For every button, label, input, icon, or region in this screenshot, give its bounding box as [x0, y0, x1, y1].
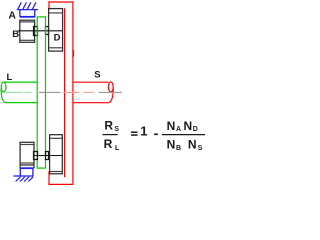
svg-text:R: R — [104, 137, 113, 151]
bottom left vertical below gear S — [48, 171, 50, 184]
bottom edge — [48, 183, 73, 185]
svg-text:A: A — [176, 126, 181, 133]
hub block top-left — [34, 27, 38, 36]
gear B — [20, 20, 35, 42]
shaft L (green input shaft) — [1, 82, 37, 103]
arm (green carrier rectangle) — [37, 17, 45, 168]
top edge — [48, 1, 73, 3]
gear A (fixed gear, bottom left) — [20, 142, 34, 165]
doubled segment on right vertical — [73, 50, 75, 57]
fraction bar 1 — [102, 134, 117, 136]
svg-text:D: D — [54, 32, 61, 43]
svg-text:R: R — [104, 118, 113, 132]
equals sign — [131, 132, 137, 134]
right vertical — [72, 2, 74, 184]
gear D — [49, 9, 63, 52]
hub block top-right — [46, 27, 49, 35]
red frame of gear S / output assembly — [48, 1, 73, 184]
fixed support bottom (ground hatching under gear A) — [13, 165, 34, 182]
svg-text:1: 1 — [140, 124, 147, 139]
minus sign — [154, 133, 158, 135]
svg-text:N: N — [184, 119, 193, 133]
centerline of main axis — [6, 91, 122, 93]
hub block bottom-left — [34, 152, 38, 160]
svg-text:A: A — [8, 10, 16, 22]
fixed support A (top ground hatching) — [17, 2, 38, 17]
fraction bar 2 — [162, 134, 205, 136]
inner vertical — [64, 8, 66, 177]
gear S (bottom right, on red frame) — [50, 135, 63, 174]
left stub above gear D — [48, 1, 50, 10]
svg-text:S: S — [114, 126, 119, 133]
svg-text:L: L — [7, 72, 13, 83]
svg-text:N: N — [188, 138, 197, 152]
svg-text:N: N — [167, 138, 176, 152]
svg-text:D: D — [193, 126, 198, 133]
hub block bottom-right — [46, 152, 49, 160]
shaft S (red output shaft) — [73, 82, 113, 103]
svg-text:S: S — [94, 70, 100, 81]
svg-text:L: L — [115, 145, 120, 152]
planet axis bottom — [34, 155, 63, 157]
formula: R_S over R_L — [102, 118, 205, 152]
svg-text:S: S — [198, 145, 203, 152]
svg-text:N: N — [167, 119, 176, 133]
svg-text:B: B — [176, 145, 181, 152]
planet axis top (shaft of B and D) — [18, 30, 63, 32]
